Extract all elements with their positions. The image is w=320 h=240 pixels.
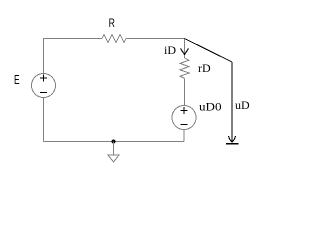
wire: left vertical segment from source E down to bottom-left corner <box>43 98 45 142</box>
ground <box>113 142 115 156</box>
resistor R <box>102 35 126 43</box>
svg-text:R: R <box>109 16 116 30</box>
reference bar under uD arrow <box>226 143 239 145</box>
source E (circle) <box>32 74 56 98</box>
svg-text:E: E <box>14 72 20 87</box>
svg-text:iD: iD <box>164 43 176 57</box>
svg-text:uD0: uD0 <box>199 100 222 114</box>
voltage arrow uD (vertical line with arrowhead) <box>231 62 233 142</box>
svg-text:rD: rD <box>198 61 211 75</box>
+ mark of source uD0 <box>181 107 188 114</box>
- mark of source E <box>40 92 47 94</box>
svg-text:uD: uD <box>235 98 250 112</box>
wire: right vertical segment from top-right node down to resistor rD <box>184 39 186 59</box>
annotation line: diagonal from top-right node to uD arrow <box>185 39 233 63</box>
wire: top horizontal segment from resistor R to top-right node <box>126 38 185 40</box>
- mark of source uD0 <box>181 124 188 126</box>
+ mark of source E <box>40 75 47 82</box>
ground junction dot <box>112 140 116 144</box>
resistor rD (vertical zigzag) <box>180 58 189 78</box>
wire: vertical segment from source uD0 down to bottom wire <box>183 130 185 142</box>
wire: left vertical segment from top-left corner down to source E <box>43 39 45 74</box>
wire: vertical segment from resistor rD down to source uD0 <box>184 78 186 105</box>
wire: bottom horizontal segment from bottom-left corner to source uD0 <box>44 141 185 143</box>
source uD0 (circle) <box>172 106 196 130</box>
wire: top-left horizontal segment from corner to resistor R <box>43 38 102 40</box>
current arrow iD (black arrowhead on wire) <box>181 49 189 55</box>
